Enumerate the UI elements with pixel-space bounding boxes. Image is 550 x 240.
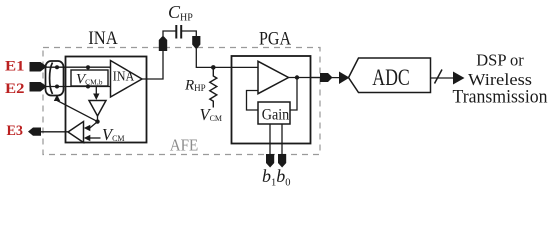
node on E1 wire in cable: [55, 65, 59, 69]
INA amp triangle: [111, 61, 143, 98]
node E1/Vcm,b: [86, 65, 90, 69]
arrow to DSP: [453, 72, 465, 85]
svg-text:INA: INA: [88, 29, 118, 49]
svg-text:Transmission: Transmission: [453, 87, 548, 108]
wire output to Gain: [290, 78, 297, 111]
INA block box: [66, 57, 147, 143]
stub Vcm,b to E1 wire: [87, 67, 89, 70]
node HP: [211, 65, 216, 70]
wire to ADC: [311, 77, 342, 79]
wire Gain control b0: [281, 124, 283, 155]
wire buffer output: [97, 116, 99, 122]
wire guard drive diagonal: [57, 100, 98, 122]
wire PGA output: [289, 77, 332, 79]
PGA block box: [232, 56, 311, 144]
pin C_HP return (down): [192, 36, 200, 50]
wire Gain control b1: [269, 124, 271, 155]
pin PGA output (right): [320, 73, 333, 82]
wire pin to PGA: [196, 49, 258, 67]
AFE dashed boundary: [43, 48, 320, 155]
Gain box: [258, 102, 290, 124]
Vcm,b box: [71, 70, 108, 86]
ADC block: [349, 58, 431, 93]
svg-text:E1: E1: [5, 59, 25, 75]
svg-text:INA: INA: [113, 70, 135, 85]
electrode E2 symbol: [30, 82, 48, 92]
resistor R_HP: [210, 67, 217, 107]
guard drive arrow into cable shield: [54, 95, 60, 102]
cable bundle ring: [46, 61, 64, 96]
arrow into E3 driver top input: [84, 125, 91, 131]
electrode E1 symbol: [30, 62, 48, 72]
svg-text:AFE: AFE: [170, 136, 199, 155]
node CM sense: [95, 119, 99, 123]
pin b1 (down): [266, 154, 274, 168]
node on E2 wire in cable: [55, 85, 59, 89]
node E2/Vcm,b: [86, 85, 90, 89]
wire ADC output: [431, 77, 455, 79]
wire E2: [45, 86, 111, 88]
svg-text:E3: E3: [7, 123, 24, 139]
node PGA output: [295, 75, 299, 79]
bus slash: [435, 70, 443, 84]
wire E3: [40, 131, 69, 133]
pin b0 (down): [278, 154, 286, 168]
svg-text:ADC: ADC: [372, 65, 410, 90]
svg-text:E2: E2: [5, 81, 25, 97]
CM sense buffer (down triangle): [89, 101, 106, 117]
E3 driver amp (left triangle): [68, 122, 84, 143]
wire Vcm to E3 driver input: [90, 137, 101, 139]
wire INA output: [142, 48, 163, 79]
pin INA output (up): [159, 36, 167, 52]
arrow into E3 driver bottom input: [84, 135, 91, 141]
wire E1: [45, 66, 111, 68]
wire node to E3 driver input: [89, 122, 98, 128]
electrode E3 symbol: [28, 128, 41, 136]
wire PGA feedback bracket: [247, 91, 259, 111]
svg-text:PGA: PGA: [259, 30, 292, 50]
svg-text:DSP or: DSP or: [476, 51, 524, 70]
arrow into ADC: [339, 72, 350, 85]
capacitor C_HP: [163, 25, 196, 39]
arrow E2 wire to CM buffer: [95, 87, 97, 95]
PGA amp triangle: [258, 61, 289, 93]
svg-text:Gain: Gain: [262, 107, 290, 124]
